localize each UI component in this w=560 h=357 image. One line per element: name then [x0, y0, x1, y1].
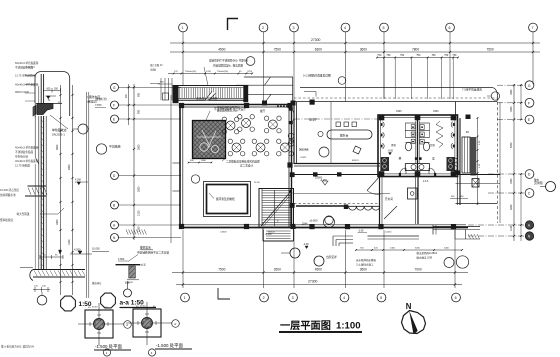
svg-text:1800: 1800: [201, 160, 207, 162]
svg-text:单色砖分缝: 单色砖分缝: [15, 155, 28, 159]
svg-text:7500: 7500: [487, 48, 494, 52]
svg-text:750: 750: [377, 54, 382, 57]
svg-text:平见结施: 平见结施: [109, 144, 121, 149]
svg-text:洗涤池上部设吊柜: 洗涤池上部设吊柜: [196, 97, 218, 101]
svg-text:聚苯板保温: 聚苯板保温: [0, 218, 13, 222]
svg-text:750: 750: [386, 54, 391, 57]
svg-text:750: 750: [431, 54, 436, 57]
svg-text:M1021: M1021: [352, 160, 359, 162]
svg-text:1100: 1100: [510, 225, 513, 231]
svg-text:10.000 碎石垫层: 10.000 碎石垫层: [0, 188, 19, 192]
svg-text:1250: 1250: [138, 226, 141, 232]
svg-text:锁链形护栏不锈钢管Φ60, 中距900: 锁链形护栏不锈钢管Φ60, 中距900: [209, 59, 249, 63]
svg-text:1:500: 1:500: [118, 258, 125, 261]
svg-text:男: 男: [399, 156, 402, 161]
svg-text:C2421: C2421: [300, 157, 307, 159]
svg-text:1860: 1860: [56, 219, 59, 225]
svg-text:2: 2: [263, 296, 265, 300]
svg-text:B: B: [113, 204, 115, 208]
svg-text:-4.30: -4.30: [303, 243, 309, 246]
svg-text:不锈钢嵌条贴面: 不锈钢嵌条贴面: [15, 66, 34, 70]
svg-text:楼.d 重长廊为600, 镀锌为5%: 楼.d 重长廊为600, 镀锌为5%: [1, 345, 35, 349]
svg-text:内嵌锚固混凝土, 做法见图: 内嵌锚固混凝土, 做法见图: [213, 63, 243, 67]
svg-text:-1.500 处平面: -1.500 处平面: [156, 342, 183, 349]
svg-text:一层平面图: 一层平面图: [280, 320, 331, 332]
svg-text:3200: 3200: [415, 247, 421, 249]
svg-text:4500: 4500: [218, 48, 225, 52]
svg-text:2100: 2100: [138, 210, 141, 216]
svg-text:A: A: [174, 322, 176, 326]
svg-text:2800: 2800: [138, 144, 141, 150]
svg-text:1:100: 1:100: [336, 321, 361, 332]
svg-text:6: 6: [449, 26, 451, 30]
svg-text:C936: C936: [433, 111, 439, 113]
svg-text:7500: 7500: [218, 268, 225, 272]
svg-text:单色砖收边: 单色砖收边: [52, 127, 67, 132]
svg-text:台阶见详: 台阶见详: [326, 255, 337, 259]
svg-text:C936: C936: [396, 111, 402, 113]
svg-text:2: 2: [262, 26, 264, 30]
svg-text:±0.000: ±0.000: [310, 219, 318, 223]
svg-text:≥水泥: ≥水泥: [140, 263, 147, 267]
svg-text:1200: 1200: [68, 239, 71, 245]
svg-text:不锈钢台面橱柜 详二次设计: 不锈钢台面橱柜 详二次设计: [214, 107, 246, 111]
svg-text:开水间: 开水间: [385, 197, 393, 201]
svg-text:1400: 1400: [444, 247, 450, 249]
svg-text:特大型雨蓬: 特大型雨蓬: [17, 212, 30, 216]
svg-text:3823: 3823: [56, 144, 59, 150]
svg-text:5: 5: [380, 296, 382, 300]
svg-text:60x40x3 单色贴面砖: 60x40x3 单色贴面砖: [15, 61, 39, 65]
svg-text:60 60: 60 60: [140, 306, 146, 308]
svg-text:4.200: 4.200: [75, 179, 82, 182]
svg-text:4500: 4500: [315, 268, 322, 272]
svg-text:750: 750: [444, 54, 449, 57]
svg-text:900: 900: [138, 92, 141, 97]
svg-text:1400: 1400: [390, 247, 396, 249]
svg-text:40x40x3 单色贴面砖: 40x40x3 单色贴面砖: [15, 159, 39, 163]
svg-text:7: 7: [532, 26, 534, 30]
svg-text:60 60: 60 60: [92, 307, 98, 309]
svg-text:咖啡厅: 咖啡厅: [309, 118, 317, 122]
svg-text:3015AB: 3015AB: [299, 148, 309, 152]
svg-text:SNJ203-1: SNJ203-1: [52, 133, 65, 137]
svg-text:C3618: C3618: [220, 232, 227, 234]
svg-text:7.870: 7.870: [95, 103, 102, 107]
svg-text:N: N: [406, 302, 412, 311]
svg-text:4: 4: [343, 296, 345, 300]
svg-text:750: 750: [400, 54, 405, 57]
svg-text:1: 1: [182, 26, 184, 30]
svg-text:做法见西南11J812: 做法见西南11J812: [417, 251, 438, 255]
svg-text:10.000: 10.000: [92, 248, 100, 251]
svg-text:二层楼板底部吊装排风机处理: 二层楼板底部吊装排风机处理: [226, 159, 260, 163]
svg-text:与土建同步施工: 与土建同步施工: [356, 262, 374, 266]
svg-text:(楼梯栏杆): (楼梯栏杆): [95, 97, 107, 101]
svg-text:1650: 1650: [510, 106, 513, 112]
svg-text:1: 1: [184, 296, 186, 300]
svg-text:6300: 6300: [315, 48, 322, 52]
svg-text:循环泵及控制柜: 循环泵及控制柜: [216, 197, 235, 201]
svg-text:餐厅: 餐厅: [260, 109, 266, 113]
svg-text:1700: 1700: [206, 71, 212, 73]
svg-text:服务台: 服务台: [340, 134, 349, 138]
svg-text:7500: 7500: [274, 48, 281, 52]
svg-text:7000: 7000: [415, 268, 422, 272]
svg-text:4.200: 4.200: [74, 248, 81, 252]
svg-text:3600: 3600: [360, 48, 367, 52]
svg-text:中途铺绝热砖不宜二次安装: 中途铺绝热砖不宜二次安装: [137, 251, 170, 255]
svg-text:7800: 7800: [412, 48, 419, 52]
svg-text:橡塑发泡: 橡塑发泡: [140, 246, 151, 250]
svg-text:27300: 27300: [308, 280, 318, 284]
svg-text:2-3.6: 2-3.6: [423, 181, 429, 183]
svg-text:3: 3: [292, 296, 294, 300]
svg-text:750: 750: [452, 54, 457, 57]
svg-text:做法同左: 做法同左: [92, 281, 102, 285]
svg-text:27300: 27300: [311, 38, 321, 42]
svg-text:750x6=(24): 750x6=(24): [185, 71, 196, 73]
svg-text:750: 750: [416, 54, 421, 57]
svg-text:G: G: [528, 84, 531, 88]
svg-text:Φ60X=1000: Φ60X=1000: [15, 90, 30, 94]
svg-text:饮料砌蓄水池: 饮料砌蓄水池: [0, 193, 16, 197]
svg-text:去水路井挡水磨石: 去水路井挡水磨石: [356, 258, 377, 262]
svg-text:-0.450: -0.450: [320, 179, 327, 182]
svg-text:0-1.5钢筋砼雨蓬见详图: 0-1.5钢筋砼雨蓬见详图: [303, 74, 331, 78]
svg-text:不锈钢嵌条贴面: 不锈钢嵌条贴面: [15, 150, 34, 154]
svg-text:7.5米平货运通道: 7.5米平货运通道: [462, 88, 482, 92]
svg-text:5: 5: [383, 26, 385, 30]
svg-text:1800: 1800: [510, 89, 513, 95]
svg-text:详二次设计: 详二次设计: [240, 164, 253, 168]
svg-text:散水做法 2/39: 散水做法 2/39: [417, 255, 433, 259]
svg-text:F: F: [528, 101, 530, 105]
svg-text:散水: 散水: [534, 178, 540, 182]
svg-text:2980: 2980: [68, 164, 71, 170]
svg-text:-0.450: -0.450: [265, 234, 272, 236]
svg-text:C2415: C2415: [385, 232, 392, 234]
svg-text:5450: 5450: [510, 142, 513, 148]
svg-text:3000: 3000: [138, 186, 141, 192]
svg-text:F: F: [113, 104, 115, 108]
svg-text:-1.05: -1.05: [358, 230, 364, 233]
svg-text:女: 女: [432, 156, 435, 161]
svg-text:M1524: M1524: [268, 232, 275, 234]
svg-text:900: 900: [138, 109, 141, 114]
svg-text:3: 3: [293, 26, 295, 30]
svg-text:-0.05: -0.05: [388, 150, 394, 153]
svg-text:3600: 3600: [360, 268, 367, 272]
svg-text:(170): (170): [247, 71, 252, 73]
svg-text:2600: 2600: [274, 268, 281, 272]
svg-text:1900: 1900: [510, 178, 513, 184]
svg-text:上: 上: [276, 218, 279, 223]
svg-text:E: E: [113, 118, 115, 122]
svg-text:A: A: [126, 323, 128, 327]
svg-text:男厕: 男厕: [391, 143, 396, 147]
svg-text:4: 4: [344, 26, 346, 30]
svg-text:750x6=(24): 750x6=(24): [217, 71, 228, 73]
svg-text:女厕: 女厕: [430, 143, 435, 147]
svg-text:12.75 砖贴面: 12.75 砖贴面: [15, 164, 30, 168]
svg-text:1F 06: 1F 06: [254, 182, 260, 184]
svg-text:同左: 同左: [125, 281, 130, 285]
svg-text:3200: 3200: [510, 204, 513, 210]
svg-text:6: 6: [455, 296, 457, 300]
